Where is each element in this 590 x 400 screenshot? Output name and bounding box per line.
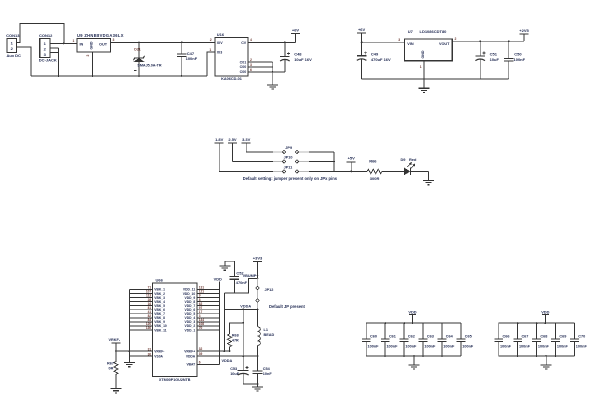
wire — [197, 282, 219, 365]
power 3.3V — [242, 137, 251, 152]
svg-text:U9 ZHNB8VDGA36LX: U9 ZHNB8VDGA36LX — [77, 33, 124, 38]
TVS diode D21 — [134, 42, 162, 76]
power +5V — [347, 156, 356, 172]
wire — [545, 356, 547, 365]
capacitor C53 — [230, 366, 249, 384]
svg-text:4: 4 — [250, 38, 252, 42]
inductor L1 — [258, 309, 275, 356]
svg-text:BEAD: BEAD — [264, 333, 275, 337]
wire — [248, 41, 296, 43]
connector CON13 — [6, 33, 21, 58]
svg-text:3.3V: 3.3V — [242, 137, 251, 142]
svg-text:CON12: CON12 — [39, 33, 53, 38]
wire — [410, 171, 428, 180]
wire — [17, 47, 32, 76]
svg-text:C54: C54 — [263, 367, 271, 371]
svg-text:C70: C70 — [578, 334, 585, 338]
wire — [129, 286, 152, 357]
ground — [419, 88, 430, 92]
wire — [234, 277, 258, 293]
wire — [333, 152, 335, 172]
svg-text:DC-JACK: DC-JACK — [39, 58, 57, 63]
IC U66 — [153, 278, 198, 383]
svg-text:VRKF-: VRKF- — [109, 338, 121, 342]
svg-text:U16: U16 — [217, 32, 225, 37]
resistor R66 — [367, 158, 382, 181]
svg-text:10uF 16V: 10uF 16V — [294, 57, 312, 62]
svg-text:GND: GND — [90, 41, 94, 49]
svg-text:2.5V: 2.5V — [228, 137, 237, 142]
wire — [243, 383, 258, 387]
capacitor C50 — [504, 41, 526, 79]
svg-text:C00: C00 — [240, 70, 247, 74]
svg-text:OUT: OUT — [99, 43, 108, 47]
connector CON12 — [39, 33, 57, 62]
capacitor C65 — [457, 323, 474, 356]
svg-text:2: 2 — [210, 38, 212, 42]
wire — [242, 309, 244, 369]
svg-text:3: 3 — [398, 38, 400, 42]
svg-text:CV: CV — [241, 41, 247, 45]
ground — [541, 365, 552, 369]
ground — [409, 365, 420, 369]
svg-text:VDDA: VDDA — [240, 305, 251, 309]
ground — [219, 261, 230, 270]
svg-text:100nF: 100nF — [500, 345, 512, 349]
capacitor C48 — [280, 42, 312, 72]
svg-text:3: 3 — [44, 52, 47, 57]
svg-text:C01: C01 — [240, 60, 247, 64]
capacitor C61 — [381, 323, 398, 356]
capacitor C70 — [570, 323, 587, 356]
svg-text:XTM00P1GU2NTB: XTM00P1GU2NTB — [159, 378, 191, 382]
net label VDD — [214, 277, 222, 282]
svg-text:2: 2 — [86, 55, 90, 57]
wire — [50, 48, 59, 76]
jumper JP11 — [273, 166, 309, 174]
svg-text:R66: R66 — [369, 158, 377, 163]
svg-text:JP10: JP10 — [284, 156, 293, 160]
svg-text:JP11: JP11 — [284, 166, 293, 170]
svg-text:XIV: XIV — [217, 41, 223, 45]
wire — [219, 171, 367, 173]
svg-text:31: 31 — [148, 347, 152, 351]
svg-text:6: 6 — [199, 360, 201, 364]
wire — [197, 347, 230, 352]
net label VDD — [408, 309, 416, 323]
svg-text:2: 2 — [44, 47, 47, 52]
power +3V3 — [253, 255, 263, 278]
svg-text:C60: C60 — [370, 334, 377, 338]
wire — [207, 48, 215, 76]
ground — [423, 181, 434, 185]
svg-text:C62: C62 — [408, 334, 415, 338]
svg-text:100nF: 100nF — [405, 345, 417, 349]
svg-text:C63: C63 — [427, 334, 434, 338]
svg-text:VRKF+: VRKF+ — [184, 349, 195, 353]
svg-text:6: 6 — [250, 68, 252, 72]
svg-text:VS0A: VS0A — [154, 354, 163, 358]
wire — [92, 52, 94, 76]
svg-text:CON13: CON13 — [6, 33, 20, 38]
svg-text:32: 32 — [199, 347, 203, 351]
svg-text:470nF: 470nF — [236, 280, 248, 285]
svg-text:VRKF-: VRKF- — [154, 349, 164, 353]
svg-text:VDD: VDD — [408, 309, 416, 314]
power 1.8V — [215, 137, 224, 171]
regulator U9 — [77, 33, 124, 56]
wire — [17, 23, 64, 43]
net flag VRKF- — [109, 338, 121, 351]
capacitor C63 — [419, 323, 436, 356]
IC U16 — [210, 32, 252, 81]
capacitor C49 — [357, 42, 391, 79]
resistor R68 — [228, 323, 244, 351]
svg-text:VDDA: VDDA — [186, 354, 196, 358]
wire — [366, 322, 461, 357]
svg-text:47R: 47R — [232, 339, 239, 343]
note text — [269, 304, 306, 309]
jumper JP10 — [273, 156, 309, 164]
svg-text:C61: C61 — [389, 334, 396, 338]
ground — [252, 387, 263, 391]
svg-text:C66: C66 — [503, 334, 510, 338]
wire — [248, 62, 273, 84]
svg-text:IN: IN — [80, 43, 84, 47]
svg-text:Default JP present: Default JP present — [269, 304, 306, 309]
wire — [224, 293, 258, 351]
svg-text:Default setting: jumper presen: Default setting: jumper present only on … — [243, 176, 338, 181]
capacitor C64 — [438, 323, 455, 356]
svg-text:100nF: 100nF — [462, 345, 474, 349]
svg-text:+2V5: +2V5 — [519, 28, 529, 33]
svg-text:GND: GND — [421, 50, 425, 58]
wire — [111, 41, 216, 43]
wire — [499, 322, 575, 357]
svg-text:100nF: 100nF — [519, 345, 531, 349]
net label VDD — [541, 309, 549, 323]
resistor R67 — [107, 351, 118, 389]
net label VDDA — [222, 359, 233, 363]
power 2.5V — [228, 137, 237, 161]
svg-text:10uF: 10uF — [490, 57, 500, 62]
svg-text:0R: 0R — [109, 367, 114, 371]
wire — [452, 40, 524, 42]
svg-text:LD1086CDT80: LD1086CDT80 — [420, 29, 448, 34]
power +6V — [357, 27, 366, 42]
wire — [246, 151, 334, 153]
svg-text:C51: C51 — [490, 51, 498, 56]
svg-text:1: 1 — [420, 65, 422, 69]
svg-text:C00: C00 — [240, 65, 247, 69]
LED D9 — [401, 157, 417, 175]
wire — [115, 347, 152, 352]
svg-text:VIN: VIN — [407, 42, 414, 46]
svg-text:U66: U66 — [156, 278, 164, 283]
wire — [272, 71, 285, 73]
capacitor C62 — [400, 323, 417, 356]
svg-text:Red: Red — [409, 157, 417, 162]
svg-text:300R: 300R — [370, 176, 380, 181]
wire — [361, 41, 405, 43]
svg-text:KA06CD-01: KA06CD-01 — [221, 77, 242, 81]
svg-text:C68: C68 — [540, 334, 547, 338]
capacitor C68 — [532, 323, 549, 356]
svg-text:C64: C64 — [446, 334, 454, 338]
svg-text:3: 3 — [113, 38, 115, 42]
svg-text:C65: C65 — [465, 334, 472, 338]
svg-text:VBUMP+: VBUMP+ — [243, 274, 260, 278]
capacitor C69 — [551, 323, 568, 356]
svg-text:70: 70 — [199, 326, 203, 330]
svg-text:470uF 16V: 470uF 16V — [371, 57, 391, 62]
svg-text:C49: C49 — [371, 52, 379, 57]
power +2V5 — [519, 28, 529, 41]
svg-text:C50: C50 — [514, 51, 522, 56]
svg-text:VOUT: VOUT — [439, 42, 450, 46]
svg-text:10nF: 10nF — [263, 372, 273, 376]
capacitor C66 — [494, 323, 511, 356]
svg-text:+6V: +6V — [292, 28, 300, 33]
wire — [31, 75, 207, 77]
svg-text:C53: C53 — [230, 367, 237, 371]
svg-text:100nF: 100nF — [443, 345, 455, 349]
svg-text:+6V: +6V — [358, 27, 366, 32]
svg-text:D9: D9 — [401, 157, 407, 162]
svg-text:100nF: 100nF — [538, 345, 550, 349]
wire — [423, 61, 425, 88]
svg-text:100nF: 100nF — [368, 345, 380, 349]
capacitor C51 — [475, 41, 499, 79]
net label VBUMP+ — [243, 274, 260, 278]
regulator U7 — [398, 29, 456, 69]
svg-text:130: 130 — [146, 326, 152, 330]
svg-text:100nF: 100nF — [186, 56, 198, 61]
jumper JP12 — [256, 278, 274, 309]
svg-text:Aux DC: Aux DC — [7, 53, 22, 58]
svg-text:XI3: XI3 — [217, 50, 222, 54]
capacitor C52 — [230, 261, 248, 293]
svg-text:1: 1 — [11, 41, 14, 46]
wire — [197, 352, 258, 357]
svg-text:JP12: JP12 — [265, 288, 274, 292]
svg-text:100nF: 100nF — [514, 57, 526, 62]
capacitor C67 — [513, 323, 530, 356]
svg-text:+5V: +5V — [348, 156, 356, 161]
svg-text:SMAJ5.0A-TR: SMAJ5.0A-TR — [137, 64, 162, 68]
capacitor C60 — [362, 323, 379, 356]
svg-text:VBAT: VBAT — [186, 363, 195, 367]
svg-text:VBK_11: VBK_11 — [154, 328, 166, 332]
svg-text:10uF: 10uF — [230, 372, 240, 376]
svg-text:C69: C69 — [559, 334, 566, 338]
svg-text:3: 3 — [250, 63, 252, 67]
svg-text:C67: C67 — [521, 334, 528, 338]
svg-text:100nF: 100nF — [424, 345, 436, 349]
wire — [413, 356, 415, 365]
jumper JP9 — [273, 146, 309, 154]
wire — [225, 260, 235, 262]
svg-text:VDD_1: VDD_1 — [185, 328, 196, 332]
ground — [267, 85, 278, 89]
svg-text:100nF: 100nF — [557, 345, 569, 349]
wire — [382, 170, 404, 172]
svg-text:1: 1 — [73, 39, 75, 43]
svg-text:1.8V: 1.8V — [215, 137, 224, 142]
svg-text:2: 2 — [455, 37, 457, 41]
svg-text:2: 2 — [250, 58, 252, 62]
capacitor C54 — [252, 356, 272, 384]
ground — [111, 389, 122, 393]
svg-text:D21: D21 — [134, 48, 140, 52]
net label VDDA — [240, 305, 251, 309]
svg-text:JP9: JP9 — [285, 146, 292, 150]
svg-text:C48: C48 — [294, 52, 302, 57]
svg-text:L1: L1 — [264, 328, 268, 332]
svg-text:U7: U7 — [408, 29, 414, 34]
power +6V — [291, 28, 300, 43]
wire — [233, 160, 335, 162]
svg-text:100nF: 100nF — [386, 345, 398, 349]
svg-text:+3V3: +3V3 — [253, 255, 263, 260]
svg-text:R67: R67 — [107, 361, 114, 365]
svg-text:VDDA: VDDA — [222, 359, 233, 363]
capacitor C47 — [177, 42, 198, 76]
svg-text:2: 2 — [11, 46, 14, 51]
svg-text:1: 1 — [209, 48, 211, 52]
svg-text:VDD: VDD — [214, 277, 222, 282]
svg-text:30: 30 — [148, 352, 152, 356]
svg-text:R68: R68 — [232, 334, 239, 338]
svg-text:1: 1 — [44, 41, 47, 46]
svg-text:100nF: 100nF — [576, 345, 588, 349]
wire — [50, 39, 77, 44]
ground — [124, 356, 135, 367]
wire — [362, 78, 509, 80]
svg-text:VDD: VDD — [541, 309, 549, 314]
note text — [243, 176, 338, 181]
svg-text:39: 39 — [199, 352, 203, 356]
